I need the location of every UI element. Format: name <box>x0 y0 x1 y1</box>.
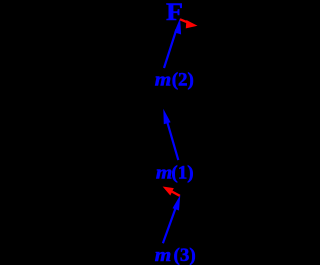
svg-text:(2): (2) <box>172 69 194 90</box>
svg-text:(3): (3) <box>174 245 196 265</box>
red arrow at m(1) (up-left) <box>163 187 180 196</box>
svg-text:m: m <box>155 245 172 265</box>
vector arrow m(2) to F <box>164 18 181 68</box>
svg-text:(1): (1) <box>171 163 193 184</box>
vector arrow m(1) to m(2) <box>163 109 178 160</box>
vector arrow m(3) to m(1) <box>163 195 180 243</box>
svg-text:F: F <box>166 0 183 26</box>
red arrow at F (down-right) <box>180 19 198 28</box>
svg-text:m: m <box>155 69 172 90</box>
svg-text:m: m <box>156 163 173 184</box>
